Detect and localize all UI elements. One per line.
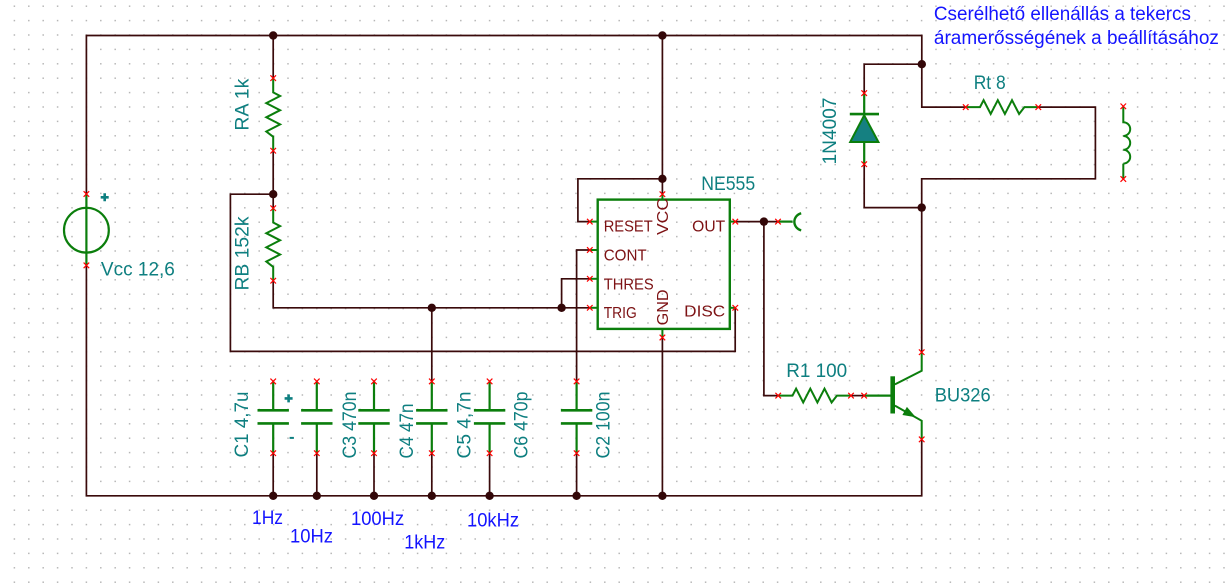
pin C2 bottom — [574, 450, 580, 456]
svg-text:Rt 8: Rt 8 — [974, 73, 1006, 94]
svg-text:RA 1k: RA 1k — [233, 78, 254, 131]
junction bottom rail C6 — [485, 492, 493, 500]
diode D1 1N4007 — [863, 93, 865, 114]
pin C3 top — [314, 379, 320, 385]
wire OUT pin to output node — [735, 221, 778, 223]
pin DISC stub — [730, 307, 736, 309]
junction RA/RB node A — [269, 190, 277, 198]
pin THRES stub — [590, 278, 598, 280]
pin VCC terminal — [660, 191, 666, 197]
wire C2 bottom to bottom rail — [576, 453, 578, 496]
pin GND stub — [661, 329, 663, 338]
junction bottom rail C5 — [428, 492, 436, 500]
pin inductor top — [1121, 104, 1127, 110]
capacitor C2 — [575, 381, 577, 409]
pin output connector terminal — [775, 219, 781, 225]
junction bottom rail GND — [658, 492, 666, 500]
svg-text:1N4007: 1N4007 — [820, 98, 841, 165]
wire Rt right loop back to collector junction — [922, 107, 1096, 208]
pin R1 right — [848, 393, 854, 399]
pin RB top — [270, 205, 276, 211]
svg-text:C3 470n: C3 470n — [340, 392, 361, 459]
pin C4 bottom — [371, 450, 377, 456]
wire C3 bottom to bottom rail — [316, 453, 318, 496]
wire C2 top up to CONT — [577, 250, 590, 381]
wire top-right junction to diode cathode — [864, 64, 922, 93]
capacitor C1 — [272, 381, 274, 409]
svg-text:C6 470p: C6 470p — [512, 392, 533, 459]
svg-text:THRES: THRES — [604, 276, 654, 293]
wire R1 to transistor base — [851, 395, 864, 397]
output connector arc — [794, 213, 801, 230]
wire top-right junction down to Rt — [922, 64, 966, 107]
junction diode/Rt/collector — [918, 203, 926, 211]
resistor Rt 8 — [966, 100, 1039, 114]
junction top-right diode-Rt — [918, 60, 926, 68]
pin VCC stub — [661, 194, 663, 199]
junction OUT node — [760, 217, 768, 225]
svg-text:Vcc 12,6: Vcc 12,6 — [101, 259, 175, 280]
svg-text:1Hz: 1Hz — [252, 508, 283, 529]
junction bottom rail C2 — [572, 492, 580, 500]
junction bottom rail C4 — [370, 492, 378, 500]
pin diode cathode — [861, 90, 867, 96]
pin TRIG terminal — [587, 305, 593, 311]
pin C2 top — [574, 379, 580, 385]
svg-text:CONT: CONT — [604, 247, 648, 264]
pin C1 top — [270, 379, 276, 385]
pin OUT stub — [730, 221, 736, 223]
pin RESET stub — [590, 221, 598, 223]
svg-text:RB 152k: RB 152k — [233, 216, 254, 291]
wire C4 bottom to bottom rail — [373, 453, 375, 496]
svg-text:C2 100n: C2 100n — [594, 392, 615, 459]
resistor R1 100 — [778, 389, 851, 403]
pin C3 bottom — [314, 450, 320, 456]
wire diode anode to collector junction — [864, 164, 922, 207]
pin RA bottom — [270, 148, 276, 154]
capacitor C6 — [489, 381, 491, 409]
junction top rail / VCC drop — [658, 31, 666, 39]
svg-text:R1 100: R1 100 — [786, 361, 847, 382]
wire RESET tap from VCC drop — [578, 179, 663, 222]
pin DISC terminal — [733, 305, 739, 311]
capacitor C1 polarity plus — [285, 394, 293, 402]
svg-text:DISC: DISC — [684, 303, 725, 320]
svg-text:C4 47n: C4 47n — [397, 404, 418, 459]
svg-text:10Hz: 10Hz — [290, 527, 333, 548]
output connector lead — [778, 221, 793, 223]
wire node A: RA/RB junction left + left box down to DISC — [230, 194, 735, 351]
junction TRIG rail / THRES — [557, 304, 565, 312]
pin Rt left — [963, 104, 969, 110]
resistor RB 152k — [266, 208, 280, 281]
wire RB top lead — [272, 194, 274, 208]
junction RESET tap — [658, 175, 666, 183]
svg-text:NE555: NE555 — [701, 174, 755, 195]
pin TRIG stub — [590, 307, 598, 309]
capacitor C3 — [316, 381, 318, 409]
svg-text:10kHz: 10kHz — [467, 511, 519, 532]
pin transistor base — [861, 393, 867, 399]
pin inductor bottom — [1121, 176, 1127, 182]
svg-text:TRIG: TRIG — [604, 305, 637, 322]
pin C1 bottom — [270, 450, 276, 456]
pin C6 top — [487, 379, 493, 385]
wire top rail from Vcc through top junctions to top-right corner — [86, 36, 921, 195]
svg-text:BU326: BU326 — [935, 386, 991, 407]
junction top rail / RA — [269, 31, 277, 39]
transistor Q1 BU326 — [864, 395, 891, 397]
pin RB bottom — [270, 278, 276, 284]
svg-text:OUT: OUT — [692, 219, 726, 236]
capacitor C5 — [431, 381, 433, 409]
wire TRIG rail down to C5 top — [431, 308, 433, 382]
junction bottom rail C3 — [313, 492, 321, 500]
pin THRES terminal — [587, 276, 593, 282]
pin Vcc bottom terminal — [84, 263, 90, 269]
svg-text:áramerősségének a beállításáho: áramerősségének a beállításához — [934, 28, 1219, 49]
svg-text:GND: GND — [655, 289, 672, 325]
wire bottom rail from Vcc to transistor emitter — [86, 265, 921, 495]
capacitor C4 — [373, 381, 375, 409]
pin Rt right — [1036, 104, 1042, 110]
pin C5 bottom — [429, 450, 435, 456]
wire THRES tap — [562, 279, 590, 308]
wire C6 bottom to bottom rail — [489, 453, 491, 496]
wire C1 bottom to bottom rail — [272, 453, 274, 496]
pin C6 bottom — [487, 450, 493, 456]
wire GND pin down to bottom rail — [661, 338, 663, 496]
wire collector up to right junction — [921, 208, 923, 353]
wire VCC drop from top rail — [661, 36, 663, 195]
pin R1 left — [775, 393, 781, 399]
voltage source plus sign — [101, 193, 109, 201]
pin GND terminal — [660, 335, 666, 341]
capacitor C1 polarity minus — [290, 437, 294, 439]
inductor Lt coil — [1123, 106, 1130, 179]
resistor RA 1k — [266, 78, 280, 151]
pin RA top — [270, 75, 276, 81]
svg-text:Cserélhető ellenállás a tekerc: Cserélhető ellenállás a tekercs — [934, 4, 1191, 25]
svg-text:C5 4,7n: C5 4,7n — [455, 392, 476, 459]
pin C4 top — [371, 379, 377, 385]
wire C5 bottom to bottom rail — [431, 453, 433, 496]
wire RA top lead to top rail — [272, 36, 274, 79]
pin CONT stub — [590, 249, 598, 251]
op-amp U1 NE555 body — [598, 200, 730, 329]
pin RESET terminal — [587, 219, 593, 225]
pin Vcc top terminal — [84, 191, 90, 197]
junction bottom rail C1 — [269, 492, 277, 500]
svg-text:RESET: RESET — [604, 219, 653, 236]
pin transistor collector — [919, 349, 925, 355]
wire RB bottom to TRIG rail — [273, 281, 590, 308]
pin C5 top — [429, 379, 435, 385]
wire RA bottom to RA/RB junction — [272, 151, 274, 195]
svg-text:100Hz: 100Hz — [351, 509, 404, 530]
pin OUT terminal — [733, 219, 739, 225]
wire output node down to R1 — [764, 222, 778, 396]
voltage source Vcc symbol — [64, 208, 109, 253]
junction TRIG rail / C5 — [428, 304, 436, 312]
svg-text:1kHz: 1kHz — [404, 533, 445, 554]
pin diode anode — [861, 161, 867, 167]
svg-text:C1 4,7u: C1 4,7u — [232, 392, 253, 458]
pin transistor emitter — [919, 437, 925, 443]
pin CONT terminal — [587, 247, 593, 253]
svg-text:VCC: VCC — [655, 198, 672, 235]
